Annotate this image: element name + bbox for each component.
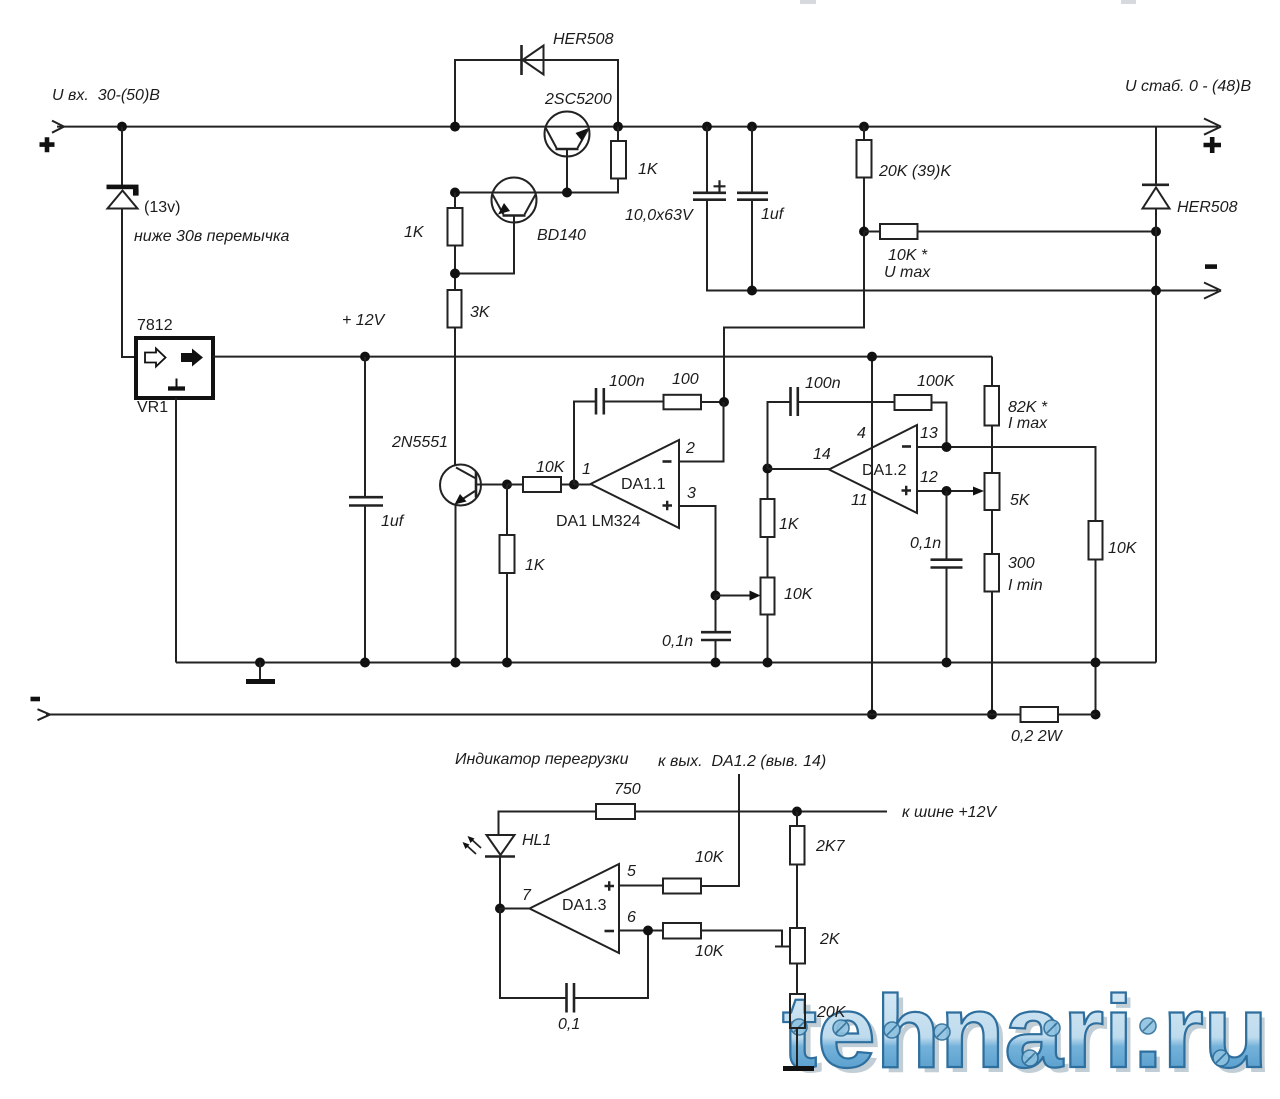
pin 7 (522, 887, 532, 904)
svg-text:1K: 1K (779, 516, 800, 533)
label 7812 (137, 317, 173, 334)
label U max (884, 264, 931, 281)
wire negative rail (46, 714, 1096, 716)
plus sign DA1.2 (902, 486, 912, 495)
label 1uf (761, 206, 785, 223)
label 20K (816, 1004, 847, 1021)
label 20K (39)K (878, 163, 952, 180)
watermark tehnari.ru (782, 974, 1272, 1094)
svg-text:10K *: 10K * (888, 247, 928, 264)
resistor 82K Imax (985, 357, 1000, 473)
plus input terminal (40, 137, 55, 152)
capacitor C3 1uf (349, 357, 383, 663)
svg-text:7812: 7812 (137, 317, 173, 334)
resistor 0,2 2W (1021, 707, 1059, 722)
junction pin7 (495, 904, 505, 914)
svg-text:12: 12 (920, 469, 938, 486)
resistor 1K collector (455, 127, 626, 193)
svg-text:к шине +12V: к шине +12V (902, 804, 997, 821)
junction pin3 pot (711, 591, 721, 601)
junction diode mid (1151, 227, 1161, 237)
svg-text:1uf: 1uf (381, 513, 405, 530)
op-amp DA1.3 (530, 864, 620, 953)
minus sign DA1.1 (663, 460, 672, 463)
svg-text:10K: 10K (695, 943, 725, 960)
minus sign DA1.2 (902, 445, 911, 448)
svg-text:300: 300 (1008, 555, 1035, 572)
junction 12V bus 2K7 (792, 807, 802, 817)
transistor Q1 2SC5200 (545, 112, 590, 193)
wire from DA1.2 out (701, 774, 739, 886)
wire pin13 (917, 447, 1096, 521)
label 0,1 (558, 1016, 580, 1033)
svg-text:2SC5200: 2SC5200 (544, 91, 612, 108)
svg-text:13: 13 (920, 425, 938, 442)
op-amp DA1.1 (591, 440, 680, 528)
svg-text:к вых. DA1.2 (выв. 14): к вых. DA1.2 (выв. 14) (658, 753, 826, 770)
junction DA12 out (763, 464, 773, 474)
resistor 3K (448, 290, 462, 466)
label 10K* (888, 247, 928, 264)
resistor 10K pin6 (663, 923, 790, 947)
svg-text:4: 4 (857, 425, 866, 442)
svg-text:2: 2 (685, 440, 695, 457)
svg-text:5: 5 (627, 863, 636, 880)
label 2N5551 (391, 434, 448, 451)
wire DA1.2 output (768, 468, 830, 470)
output arrow plus rail (1204, 119, 1221, 135)
wire ground rail (176, 662, 1156, 664)
pin 11 (851, 492, 868, 509)
svg-text:1K: 1K (525, 557, 546, 574)
junction DA1.1 out (569, 480, 579, 490)
label 1K emitter (525, 557, 546, 574)
svg-text:2K7: 2K7 (815, 838, 846, 855)
pin 5 (627, 863, 636, 880)
value label (13v) (144, 199, 180, 216)
svg-text:HL1: HL1 (522, 832, 551, 849)
label 10K base (536, 459, 566, 476)
svg-text:0,1n: 0,1n (662, 633, 693, 650)
svg-text:U стаб. 0 - (48)В: U стаб. 0 - (48)В (1125, 78, 1252, 95)
svg-text:0,1n: 0,1n (910, 535, 941, 552)
svg-text:HER508: HER508 (1177, 199, 1238, 216)
svg-text:2N5551: 2N5551 (391, 434, 448, 451)
wire bypass loop (455, 60, 618, 127)
label 0,1n DA1.1 (662, 633, 693, 650)
potentiometer 5K (985, 473, 1000, 554)
zener diode VD1 13v (107, 185, 139, 209)
resistor 1K emitter (500, 485, 515, 663)
label 10,0x63V (625, 207, 694, 224)
label 82K (1008, 399, 1048, 416)
potentiometer 20K (790, 994, 805, 1066)
ground (246, 663, 275, 682)
diode HER508 top (522, 45, 544, 75)
svg-text:DA1.2: DA1.2 (862, 462, 907, 479)
label 0,2 2W (1011, 728, 1064, 745)
pin 13 (920, 425, 938, 442)
svg-text:750: 750 (614, 781, 641, 798)
plus sign DA1.1 (663, 501, 673, 510)
output arrow minus rail (1204, 283, 1221, 299)
transistor Q2 BD140 (455, 178, 537, 274)
label 1uf mid (381, 513, 405, 530)
wire 12V bus (499, 812, 888, 835)
label 300 (1008, 555, 1035, 572)
note nizhe 30v peremychka (134, 228, 290, 245)
resistor 1K divider (761, 469, 775, 538)
label 100n DA1.2 (805, 375, 841, 392)
junction 12V power (867, 352, 877, 362)
resistor 750 (596, 804, 635, 819)
label k shine 12V (902, 804, 997, 821)
ground bottom (783, 1066, 814, 1071)
pin 12 (920, 469, 938, 486)
label +12V (342, 312, 386, 329)
svg-text:10K: 10K (784, 586, 814, 603)
junction base node (502, 480, 512, 490)
junction 20K-10K (859, 227, 869, 237)
wire zener top (121, 127, 123, 185)
resistor 100 (664, 395, 725, 410)
wire power pins (871, 357, 873, 715)
pin 2 (685, 440, 695, 457)
pin 3 (687, 485, 696, 502)
node label U stab 0-(48)V (1125, 78, 1252, 95)
svg-text:+ 12V: + 12V (342, 312, 386, 329)
junction 12V cap (360, 352, 370, 362)
label DA1 LM324 (556, 513, 641, 530)
svg-text:Индикатор перегрузки: Индикатор перегрузки (455, 751, 629, 768)
transistor Q3 2N5551 (440, 465, 507, 663)
node label U vx 30-(50)V (52, 87, 160, 104)
junction Q3 emitter gnd (451, 658, 461, 668)
pin 4 (857, 425, 866, 442)
wire pin7 (500, 908, 530, 910)
capacitor C1 10,0x63V (693, 127, 1218, 291)
capacitor 0,1n DA1.2 (931, 491, 963, 663)
junction feedback 100 (719, 397, 729, 407)
node A junction (117, 122, 127, 132)
svg-text:1uf: 1uf (761, 206, 785, 223)
label 2SC5200 (544, 91, 612, 108)
svg-text:U max: U max (884, 264, 931, 281)
svg-text:BD140: BD140 (537, 227, 586, 244)
junction 300 neg (987, 710, 997, 720)
pin 6 (627, 909, 636, 926)
svg-text:U вх. 30-(50)В: U вх. 30-(50)В (52, 87, 160, 104)
svg-text:20K (39)K: 20K (39)K (878, 163, 952, 180)
capacitor C2 1uf (737, 127, 768, 291)
potentiometer 10K (761, 537, 775, 663)
label 1K divider (779, 516, 800, 533)
label 0,1n DA1.2 (910, 535, 941, 552)
resistor 300 Imin (985, 554, 1000, 715)
label 750 (614, 781, 641, 798)
svg-text:100n: 100n (609, 373, 645, 390)
svg-text:VR1: VR1 (137, 399, 168, 416)
capacitor 0,1n DA1.1 (701, 596, 731, 663)
junction rail-loop right (613, 122, 623, 132)
label 1K left (404, 224, 425, 241)
wire DA1.1 output (574, 484, 591, 486)
label 2K (819, 931, 841, 948)
svg-text:5K: 5K (1010, 492, 1031, 509)
junction rail cap2 (747, 122, 757, 132)
label 1K (638, 161, 659, 178)
svg-text:1K: 1K (404, 224, 425, 241)
junction minus rail right (1151, 286, 1161, 296)
label 10K right (1108, 540, 1138, 557)
junction pin12 (942, 486, 952, 496)
svg-text:(13v): (13v) (144, 199, 180, 216)
label VR1 (137, 399, 168, 416)
capacitor 100n DA1.1 (574, 388, 664, 485)
wire right side down (1155, 291, 1157, 663)
label DA1.2 (862, 462, 907, 479)
junction rail cap1 (702, 122, 712, 132)
label BD140 (537, 227, 586, 244)
junction 01n gnd (711, 658, 721, 668)
resistor 10K U max (864, 224, 1156, 239)
label HER508 right (1177, 199, 1238, 216)
junction pin13 (942, 442, 952, 452)
label HL1 (522, 832, 551, 849)
svg-text:HER508: HER508 (553, 31, 614, 48)
svg-text:DA1 LM324: DA1 LM324 (556, 513, 641, 530)
svg-text:3K: 3K (470, 304, 491, 321)
svg-text:1K: 1K (638, 161, 659, 178)
input arrow (52, 121, 64, 133)
label 5K (1010, 492, 1031, 509)
potentiometer 2K (790, 928, 805, 994)
resistor 20K (39)K (857, 127, 872, 232)
svg-text:3: 3 (687, 485, 696, 502)
label 10K pin6 (695, 943, 725, 960)
svg-text:0,2 2W: 0,2 2W (1011, 728, 1064, 745)
junction 01n2 gnd (942, 658, 952, 668)
note k vyh DA1.2 (658, 753, 826, 770)
wire feedback sense (724, 232, 864, 403)
svg-text:6: 6 (627, 909, 636, 926)
svg-text:20K: 20K (816, 1004, 847, 1021)
op-amp DA1.2 (829, 425, 917, 513)
plus sign DA1.3 (605, 881, 615, 890)
svg-text:100n: 100n (805, 375, 841, 392)
svg-text:100K: 100K (917, 373, 956, 390)
svg-text:ниже 30в перемычка: ниже 30в перемычка (134, 228, 290, 245)
junction power neg (867, 710, 877, 720)
label 100 (672, 371, 699, 388)
svg-text:10,0x63V: 10,0x63V (625, 207, 694, 224)
label 10K pot (784, 586, 814, 603)
junction gnd symbol (255, 658, 265, 668)
junction 10K neg (1091, 710, 1101, 720)
junction minus rail cap2 (747, 286, 757, 296)
resistor 10K base (507, 477, 574, 492)
junction base row left (450, 188, 460, 198)
plus output terminal (1204, 137, 1222, 153)
pin 14 (813, 446, 831, 463)
label DA1.3 (562, 897, 607, 914)
junction 1K gnd (502, 658, 512, 668)
diode HER508 output (1142, 127, 1170, 291)
wire pin2 (679, 402, 724, 462)
top edge smudges (800, 0, 1136, 4)
resistor 10K right (1089, 521, 1103, 715)
svg-text:tehnari.ru: tehnari.ru (782, 974, 1268, 1089)
svg-text:2K: 2K (819, 931, 841, 948)
svg-text:82K *: 82K * (1008, 399, 1048, 416)
resistor 10K pin5 (663, 879, 739, 894)
svg-text:10K: 10K (1108, 540, 1138, 557)
label 10K pin5 (695, 849, 725, 866)
wire pin3 (679, 506, 716, 596)
resistor 2K7 (790, 812, 805, 929)
svg-text:14: 14 (813, 446, 831, 463)
svg-text:DA1.3: DA1.3 (562, 897, 607, 914)
wire pin12 (917, 487, 984, 496)
wire VR1 ground pin (175, 398, 177, 663)
label 100n DA1.1 (609, 373, 645, 390)
input arrow minus (38, 709, 51, 720)
label 3K (470, 304, 491, 321)
junction rail-loop left (450, 122, 460, 132)
wire pin5 (619, 885, 663, 887)
svg-text:DA1.1: DA1.1 (621, 476, 666, 493)
resistor 100K (895, 395, 947, 447)
label 100K (917, 373, 956, 390)
junction emitter-base (450, 269, 460, 279)
svg-text:I min: I min (1008, 577, 1043, 594)
wire zener to 7812 (122, 209, 136, 358)
label I max (1008, 415, 1048, 432)
label HER508 (553, 31, 614, 48)
svg-text:1: 1 (582, 461, 591, 478)
label 2K7 (815, 838, 846, 855)
LED HL1 (463, 835, 516, 909)
minus input terminal (31, 697, 41, 702)
wire pin6 (619, 930, 663, 932)
minus sign DA1.3 (605, 930, 615, 933)
svg-text:10K: 10K (695, 849, 725, 866)
label DA1.1 (621, 476, 666, 493)
resistor 1K base (448, 193, 463, 291)
capacitor 0,1 feedback (500, 909, 648, 1013)
minus output terminal (1205, 264, 1217, 269)
junction gnd cap (360, 658, 370, 668)
pin 1 (582, 461, 591, 478)
junction base row mid (562, 188, 572, 198)
junction pot gnd (763, 658, 773, 668)
wire +12V rail (213, 356, 992, 358)
capacitor 100n DA1.2 (768, 387, 895, 469)
svg-text:0,1: 0,1 (558, 1016, 580, 1033)
svg-text:10K: 10K (536, 459, 566, 476)
svg-text:100: 100 (672, 371, 699, 388)
wiper arrow 10K pot (716, 591, 761, 601)
junction pin6 (643, 926, 653, 936)
svg-text:11: 11 (851, 492, 868, 509)
regulator VR1 7812 (136, 338, 213, 398)
note indikator peregruzki (455, 751, 629, 768)
label I min (1008, 577, 1043, 594)
wire top positive rail (57, 126, 1218, 128)
junction rail 20K (859, 122, 869, 132)
svg-text:7: 7 (522, 887, 532, 904)
junction 10K gnd (1091, 658, 1101, 668)
svg-text:I max: I max (1008, 415, 1048, 432)
